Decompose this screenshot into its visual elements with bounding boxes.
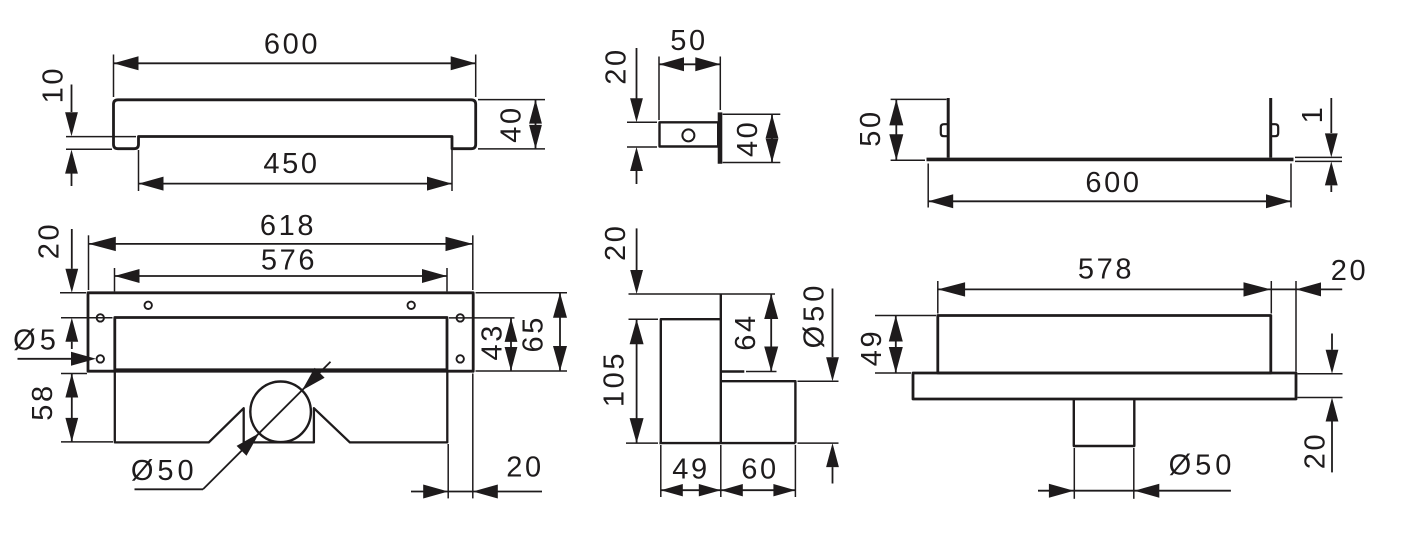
view4: dim 65 line with arrows [559,293,561,371]
view4: dim 618 line with arrows [89,243,473,245]
view4: dim 43 extension lines [449,317,515,319]
view4: screw hole left-lower [97,355,104,362]
view4: screw hole top-right [408,302,415,309]
view6: dim Ø50 extension lines [1073,448,1075,499]
view4: screw hole right-upper [457,314,464,321]
view4: dim 576 line with arrows [115,275,448,277]
svg-text:50: 50 [670,25,707,57]
view6: dim 578 line with arrows [938,288,1271,290]
view5: dim Ø50 line with arrows [832,289,834,358]
view4: lower body with notches [115,373,448,443]
view3: dim 1 line with arrows [1330,98,1332,133]
view4: screw hole top-left [145,302,152,309]
view5: dim 20 line with arrows [636,228,638,270]
view5: dim Ø50 extension lines [798,380,839,382]
svg-text:578: 578 [1078,253,1134,285]
svg-text:20: 20 [600,47,632,84]
view4: screw hole right-lower [457,355,464,362]
svg-text:64: 64 [730,313,762,350]
view1: dim 10 extension lines [66,136,136,138]
view3: left post [947,98,950,158]
view1: dim 40 line with arrows [535,100,537,149]
view2: dim 50 line with arrows [659,63,720,65]
view1: cover plate profile outline [114,100,476,149]
view5: inner step ledge [721,370,745,372]
view1: dim 600 extension lines [113,55,115,98]
svg-text:450: 450 [263,148,319,180]
view2: flange bar [718,112,723,163]
view4: dim 576 extension lines [114,268,116,291]
view6: dim 49 extension lines [875,315,936,317]
svg-text:65: 65 [517,315,549,352]
svg-text:49: 49 [672,453,709,485]
svg-text:40: 40 [732,120,764,157]
view6: dim 20 top-right line with arrow [1296,282,1321,296]
svg-text:20: 20 [33,222,65,259]
view5: dim 60 line with arrows [721,484,743,496]
svg-text:50: 50 [855,109,887,146]
view2: dim 40 line with arrows [771,114,773,162]
svg-text:60: 60 [741,453,778,485]
view3: right post hook [1271,124,1278,136]
svg-text:Ø50: Ø50 [131,455,198,487]
view5: dim 49 line with arrows [661,489,721,491]
view4: dim 65 extension line [476,292,568,294]
view1: dim 40 extension lines [478,99,545,101]
view4: dim 58 line with arrows [71,374,73,442]
view4: screw hole left-upper [97,314,104,321]
view2: dim 20 extension lines [627,121,657,123]
svg-text:20: 20 [600,224,632,261]
view3: dim 50 extension lines [891,98,947,100]
view6: dim 49 line with arrows [895,316,897,374]
view4: dim 20 bottom-right extension lines [447,444,449,498]
view6: flange plate [913,373,1296,399]
view4: dim Ø5 leader with arrow [18,358,73,360]
view4: drain circle [250,382,311,443]
view4: dim Ø50 leader diagonal [135,488,204,490]
view1: dim 10 line with arrows [71,85,73,113]
view5: dim 64 line with arrows [770,294,772,372]
svg-text:Ø5: Ø5 [13,324,60,356]
view4: dim 43 line with arrows [510,318,512,371]
svg-text:600: 600 [264,28,320,60]
view5: dim 20 extension lines [629,293,776,295]
view2: tube hole [682,129,694,141]
view6: body rectangle [938,316,1271,374]
view2: dim 50 extension lines [658,57,660,121]
view4: dim 618 extension lines [88,235,90,290]
view3: dim 600 extension lines [927,164,929,208]
view5: outlet block [722,381,795,443]
view2: outlet tube rectangle [660,122,719,146]
view3: dim 1 extension lines [1295,156,1342,158]
svg-text:Ø50: Ø50 [1169,449,1236,481]
view6: dim Ø50 line with arrows [1038,490,1134,492]
view4: dim 20 top-left extension lines [60,292,86,294]
view3: dim 50 line with arrows [895,99,897,160]
svg-text:20: 20 [1299,432,1331,469]
svg-text:43: 43 [476,323,508,360]
view2: dim 20 line with arrows [636,48,638,99]
view5: right wall [720,294,722,443]
view5: dim 105 extension line [626,442,658,444]
svg-text:58: 58 [27,383,59,420]
view3: base plate edge-on [927,158,1294,162]
view1: dim 450 extension lines [138,150,140,191]
svg-text:576: 576 [261,244,317,276]
view6: outlet stub [1074,399,1135,446]
svg-text:49: 49 [856,329,888,366]
view6: dim 20 right extension lines [1298,373,1343,375]
view5: dim 105 line with arrows [636,319,638,443]
view4: dim 20 bottom-right line with arrows [411,491,542,493]
svg-text:20: 20 [1331,255,1368,287]
svg-text:1: 1 [1297,105,1329,124]
view6: dim 20 right line with arrows [1331,334,1333,350]
svg-text:105: 105 [598,351,630,407]
view3: right post [1269,98,1272,158]
svg-text:40: 40 [495,105,527,142]
view5: tall body section [661,319,721,443]
svg-text:20: 20 [506,451,543,483]
view3: dim 600 line with arrows [928,200,1291,202]
view4: dim 58 extension lines [61,373,87,375]
svg-text:10: 10 [37,66,69,103]
view4: inner channel rectangle [115,318,447,370]
view6: dim 20 top-right extension line [1295,281,1297,372]
svg-text:600: 600 [1085,167,1141,199]
svg-text:618: 618 [260,210,316,242]
view3: left post hook [941,124,948,136]
view5: dim 64 extension line [746,371,777,373]
view5: bottom edge [659,442,795,444]
view5: dim 49 extension lines [660,445,662,497]
view4: outer flange rectangle [88,293,473,371]
view2: dim 40 extension lines [723,113,781,115]
view4: dim 20 top-left line with arrows [71,229,73,269]
view5: dim 60 extension line [794,445,796,497]
svg-text:Ø50: Ø50 [799,282,831,349]
view6: dim 578 extension lines [937,281,939,314]
view1: dim 450 line with arrows [139,183,453,185]
view1: dim 600 line with arrows [114,62,476,64]
